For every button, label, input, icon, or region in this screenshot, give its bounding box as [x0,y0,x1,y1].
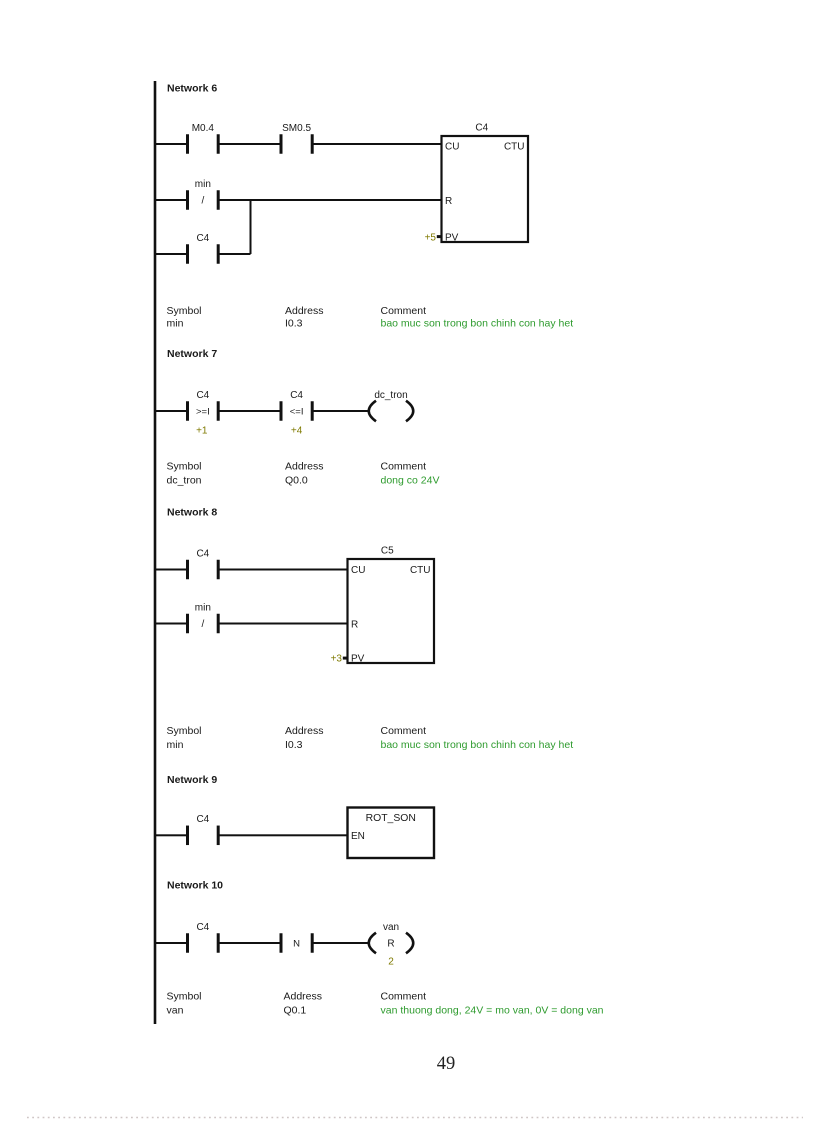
svg-text:C4: C4 [196,233,209,244]
svg-text:49: 49 [437,1054,456,1074]
wire N contact to reset coil [312,942,369,944]
svg-text:>=I: >=I [196,407,210,418]
svg-text:CU: CU [445,142,459,153]
svg-text:Network 7: Network 7 [167,348,217,360]
wire min to C4 R input [218,199,441,201]
svg-text:Network 9: Network 9 [167,774,217,786]
svg-text:Symbol: Symbol [167,461,202,473]
counter C5 (CTU box) [331,546,434,665]
svg-text:SM0.5: SM0.5 [282,123,311,134]
wire to coil dc_tron [312,410,369,412]
contact M0.4 [186,123,220,154]
svg-text:+4: +4 [291,426,303,437]
svg-text:Symbol: Symbol [167,991,202,1003]
svg-text:C4: C4 [196,390,209,401]
footer dotted rule [27,1117,803,1119]
svg-text:dc_tron: dc_tron [167,475,202,487]
contact C4 (net9) [186,814,220,845]
svg-text:/: / [201,196,204,207]
svg-text:+5: +5 [425,233,437,244]
wire rail to C4 contact (net10) [155,942,188,944]
wire rail to min contact [155,199,188,201]
svg-text:N: N [293,939,300,950]
contact SM0.5 [280,123,314,154]
left power rail [154,81,157,1024]
wire rail to C4 contact [155,253,188,255]
svg-text:dong co 24V: dong co 24V [381,475,440,487]
svg-text:C4: C4 [196,922,209,933]
svg-text:min: min [167,739,184,751]
svg-text:C4: C4 [475,123,488,134]
wire M0.4 to SM0.5 [218,143,281,145]
svg-text:Address: Address [285,305,324,317]
svg-text:C4: C4 [196,814,209,825]
contact C4 (net10) [186,922,220,953]
network 10 title [167,880,223,892]
value +4 [291,426,303,437]
svg-text:Q0.0: Q0.0 [285,475,308,487]
svg-text:M0.4: M0.4 [192,123,215,134]
svg-text:bao muc son trong bon chinh co: bao muc son trong bon chinh con hay het [381,318,574,330]
wire C4 to N contact [218,942,281,944]
svg-text:Address: Address [284,991,323,1003]
wire rail to C4 contact (net9) [155,834,188,836]
svg-text:I0.3: I0.3 [285,318,303,330]
svg-text:R: R [445,196,452,207]
contact min (NC) [186,179,220,210]
svg-text:van thuong dong, 24V = mo van,: van thuong dong, 24V = mo van, 0V = dong… [381,1004,604,1016]
svg-text:Comment: Comment [381,725,427,737]
svg-text:/: / [201,619,204,630]
svg-text:I0.3: I0.3 [285,739,303,751]
wire rail to min contact (net8) [155,623,188,625]
svg-text:+1: +1 [196,426,208,437]
wire min to C5 R input [218,623,347,625]
network 9 title [167,774,217,786]
svg-text:Comment: Comment [381,461,427,473]
wire SM0.5 to C4 CU input [312,143,441,145]
contact min NC (net8) [186,602,220,633]
svg-text:dc_tron: dc_tron [374,390,407,401]
svg-text:Network 10: Network 10 [167,880,223,892]
svg-text:EN: EN [351,831,365,842]
wire rail to C4 contact [155,569,188,571]
svg-text:C4: C4 [196,548,209,559]
counter C4 (CTU box) [425,123,528,244]
svg-text:PV: PV [445,233,459,244]
svg-text:CTU: CTU [410,565,431,576]
svg-text:CU: CU [351,565,365,576]
svg-text:CTU: CTU [504,142,525,153]
compare contact C4 &gt;= 1 [186,390,220,421]
negative edge contact N [280,933,314,953]
svg-text:Symbol: Symbol [167,725,202,737]
svg-text:van: van [383,922,399,933]
svg-text:+3: +3 [331,654,343,665]
svg-text:2: 2 [388,957,394,968]
wire C4 to ROT_SON EN input [218,834,347,836]
page number 49 [437,1054,456,1074]
wire rail to M0.4 [155,143,188,145]
contact C4 [186,233,220,264]
svg-text:Symbol: Symbol [167,305,202,317]
wire between compare contacts [218,410,281,412]
subroutine box ROT_SON [348,808,435,859]
value +1 [196,426,208,437]
wire C4 to C5 CU input [218,569,347,571]
network 7 title [167,348,217,360]
svg-text:Network 6: Network 6 [167,83,217,95]
compare contact C4 &lt;= 4 [280,390,314,421]
junction node branch [250,200,252,254]
svg-text:Network 8: Network 8 [167,506,217,518]
network 8 title [167,506,217,518]
svg-text:C5: C5 [381,546,394,557]
svg-text:Comment: Comment [381,305,427,317]
coil dc_tron [369,390,414,422]
symbol table network 8 [167,725,574,751]
svg-text:min: min [167,318,184,330]
symbol table network 6 [167,305,574,330]
symbol table network 7 [167,461,440,487]
svg-text:Address: Address [285,725,324,737]
svg-text:Q0.1: Q0.1 [284,1004,307,1016]
network 6 title [167,83,217,95]
wire C4 contact to junction [218,253,250,255]
svg-text:C4: C4 [290,390,303,401]
svg-text:Comment: Comment [381,991,427,1003]
svg-text:bao muc son trong bon chinh co: bao muc son trong bon chinh con hay het [381,739,574,751]
svg-text:<=I: <=I [290,407,304,418]
svg-text:ROT_SON: ROT_SON [366,813,416,824]
wire rail to compare contact [155,410,188,412]
reset coil van (R) [369,922,414,968]
svg-text:min: min [195,602,211,613]
svg-text:PV: PV [351,654,365,665]
svg-text:Address: Address [285,461,324,473]
contact C4 (net8) [186,548,220,579]
symbol table network 10 [167,991,604,1017]
svg-text:min: min [195,179,211,190]
svg-text:van: van [167,1004,184,1016]
svg-text:R: R [387,939,394,950]
svg-text:R: R [351,619,358,630]
